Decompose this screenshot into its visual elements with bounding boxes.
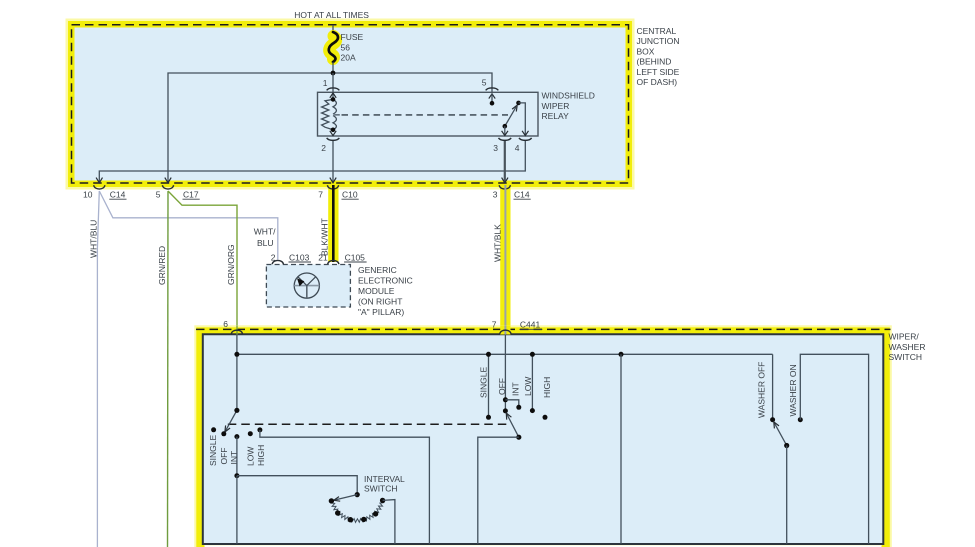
connector C103 pin 2 bbox=[271, 252, 311, 264]
central junction box dashed outline bbox=[72, 25, 629, 183]
svg-text:7: 7 bbox=[318, 190, 323, 200]
svg-text:FUSE: FUSE bbox=[341, 32, 364, 42]
svg-text:MODULE: MODULE bbox=[358, 286, 395, 296]
node: OFF/INT junction bbox=[503, 397, 508, 402]
svg-text:WHT/BLU: WHT/BLU bbox=[88, 220, 98, 258]
svg-text:HIGH: HIGH bbox=[542, 377, 552, 398]
svg-text:SINGLE: SINGLE bbox=[479, 366, 489, 398]
label: CENTRAL JUNCTION BOX (BEHIND LEFT SIDE OF DASH) bbox=[637, 26, 680, 87]
wire: WASHER ON contact to washer motor feed bbox=[800, 354, 868, 544]
svg-text:INT: INT bbox=[511, 382, 521, 396]
svg-text:WASHER ON: WASHER ON bbox=[788, 364, 798, 416]
relay pin 3 bbox=[493, 126, 511, 153]
svg-text:20A: 20A bbox=[341, 53, 356, 63]
svg-text:2: 2 bbox=[271, 252, 276, 262]
wire: relay pin 3 to connector C14 pin 3 bbox=[504, 141, 506, 183]
arrow: wire exit at C14 pin 3 bbox=[502, 178, 508, 183]
contact: HIGH (left bank) bbox=[257, 427, 262, 432]
white strip below switch box bottom edge bbox=[205, 545, 882, 547]
label: WIPER/ WASHER SWITCH bbox=[889, 332, 926, 363]
wire: arm pole to bottom bbox=[478, 437, 519, 544]
svg-text:LEFT SIDE: LEFT SIDE bbox=[637, 67, 680, 77]
wire: fuse output down to node bbox=[332, 62, 334, 73]
svg-text:C14: C14 bbox=[110, 190, 126, 200]
relay pin 1 bbox=[323, 78, 340, 98]
svg-text:WASHER OFF: WASHER OFF bbox=[757, 362, 767, 418]
connector C14 pin 3 bbox=[493, 185, 531, 199]
svg-text:5: 5 bbox=[156, 190, 161, 200]
connector C10 pin 7 bbox=[318, 185, 358, 199]
arrow: wire exit at C17 pin 5 bbox=[165, 178, 171, 183]
svg-text:6: 6 bbox=[223, 319, 228, 329]
wire GRN/ORG crossing C441 band bbox=[236, 326, 238, 335]
svg-text:(BEHIND: (BEHIND bbox=[637, 57, 672, 67]
wire: relay pin 4 to connector C14 pin 10 bbox=[99, 141, 525, 183]
highlight: WHT/BLK wire bbox=[500, 185, 510, 334]
labels: WASHER OFF / WASHER ON bbox=[757, 362, 798, 418]
svg-text:JUNCTION: JUNCTION bbox=[637, 36, 680, 46]
svg-text:21: 21 bbox=[318, 252, 328, 262]
svg-text:WINDSHIELD: WINDSHIELD bbox=[542, 91, 595, 101]
interval switch arm bbox=[334, 492, 360, 501]
wire: battery feed into fuse bbox=[332, 25, 334, 32]
contact: WASHER ON bbox=[798, 417, 803, 422]
wiper/washer switch outline bbox=[203, 334, 884, 544]
contact: INT (left bank) bbox=[234, 434, 239, 439]
svg-text:GENERIC: GENERIC bbox=[358, 265, 397, 275]
svg-text:C17: C17 bbox=[183, 190, 199, 200]
wire: LOW contact stem bbox=[531, 354, 533, 410]
connector C17 pin 5 bbox=[156, 185, 200, 199]
wiper switch arm (mid bank) bbox=[506, 413, 521, 440]
central junction box highlight border bbox=[72, 25, 629, 184]
contact: OFF (left bank) bbox=[221, 431, 226, 436]
wire BLK/WHT: C10 pin 7 to GEM C105 pin 21 bbox=[332, 185, 335, 262]
svg-text:SINGLE: SINGLE bbox=[208, 434, 218, 466]
wire: link to INT contact bbox=[505, 400, 518, 408]
svg-text:WIPER/: WIPER/ bbox=[889, 332, 920, 342]
arrow: wire exit at C14 pin 10 bbox=[96, 178, 102, 183]
wire: interval junction to interval switch pivot bbox=[237, 476, 357, 495]
wire: interval track output to bottom bbox=[383, 500, 395, 544]
wire: INT contact down to interval junction bbox=[236, 437, 238, 476]
connector C441 dashed boundary bbox=[196, 328, 891, 330]
svg-text:RELAY: RELAY bbox=[542, 111, 570, 121]
relay pin 5 contact bbox=[482, 78, 499, 106]
wire WHT/BLK: C14 pin 3 to switch C441 pin 7 bbox=[504, 185, 506, 334]
relay coil winding (right branch) bbox=[333, 99, 340, 129]
svg-text:C14: C14 bbox=[514, 190, 530, 200]
svg-text:C105: C105 bbox=[345, 252, 366, 262]
wire WHT/BLU: C14 pin 10 down left edge bbox=[97, 191, 99, 547]
svg-text:3: 3 bbox=[493, 143, 498, 153]
svg-text:BOX: BOX bbox=[637, 46, 655, 56]
svg-text:4: 4 bbox=[515, 143, 520, 153]
node: bus at pin 6 wire bbox=[234, 352, 239, 357]
wire: pin 6 to wiper switch pole bbox=[236, 335, 238, 411]
contact: wiper INT (C441 bank) bbox=[516, 405, 521, 410]
svg-text:GRN/ORG: GRN/ORG bbox=[226, 244, 236, 285]
svg-text:WIPER: WIPER bbox=[542, 101, 570, 111]
wire: washer arm pole to bottom bbox=[786, 446, 788, 544]
wire GRN/RED: C17 pin 5 down bbox=[167, 191, 170, 547]
svg-text:BLK/WHT: BLK/WHT bbox=[320, 218, 330, 256]
svg-text:HOT AT ALL TIMES: HOT AT ALL TIMES bbox=[294, 10, 369, 20]
label: INTERVAL SWITCH bbox=[364, 474, 405, 494]
highlight: BLK/WHT wire bbox=[328, 185, 338, 262]
label: FUSE 56 20A bbox=[341, 32, 364, 63]
interval switch track contacts bbox=[329, 498, 386, 523]
labels: SINGLE OFF INT LOW HIGH (left bank) bbox=[208, 434, 266, 466]
labels: SINGLE OFF INT LOW HIGH (mid bank) bbox=[479, 366, 552, 398]
wire: bus corner down to WASHER OFF contact bbox=[772, 354, 774, 419]
svg-text:2: 2 bbox=[321, 143, 326, 153]
relay pin 2 bbox=[321, 131, 339, 153]
wire WHT/BLU branch to GEM C103 pin 2 bbox=[99, 191, 277, 260]
svg-text:CENTRAL: CENTRAL bbox=[637, 26, 677, 36]
central junction box interior fill bbox=[75, 28, 626, 181]
svg-text:(ON RIGHT: (ON RIGHT bbox=[358, 296, 402, 306]
wiper/washer switch highlight border bbox=[200, 331, 886, 547]
svg-text:LOW: LOW bbox=[523, 377, 533, 396]
connector C14 pin 10 bbox=[83, 185, 126, 199]
wiper/washer switch interior fill bbox=[204, 335, 883, 544]
node: bus junction to motor feed bbox=[619, 352, 624, 357]
svg-text:SWITCH: SWITCH bbox=[364, 484, 398, 494]
svg-text:5: 5 bbox=[482, 78, 487, 88]
windshield wiper relay box bbox=[318, 92, 539, 136]
svg-text:56: 56 bbox=[341, 42, 351, 52]
svg-text:OFF: OFF bbox=[219, 448, 229, 465]
label: WINDSHIELD WIPER RELAY bbox=[542, 91, 595, 122]
connector C441 pin 6 bbox=[223, 319, 242, 334]
connector C105 pin 21 bbox=[318, 252, 366, 264]
wire: feed bus across switch bbox=[237, 353, 773, 355]
GEM timer symbol bbox=[294, 273, 319, 298]
node: coil bottom bbox=[331, 128, 336, 133]
svg-text:LOW: LOW bbox=[246, 447, 256, 466]
fuse 56 20A element bbox=[329, 32, 338, 62]
svg-text:OF DASH): OF DASH) bbox=[637, 77, 678, 87]
interval switch resistive track bbox=[331, 500, 384, 522]
svg-text:SWITCH: SWITCH bbox=[889, 352, 923, 362]
wire: HIGH contact to bottom bbox=[260, 430, 430, 544]
wire: node down to relay pin 1 bbox=[332, 73, 334, 99]
wire: feed bus to C17 branch and relay pin 5 bbox=[168, 73, 492, 183]
node: fuse output junction bbox=[331, 71, 336, 76]
contact: wiper SINGLE (mid bank) bbox=[486, 415, 491, 420]
svg-text:INTERVAL: INTERVAL bbox=[364, 474, 405, 484]
wire: bus junction down to bottom bbox=[620, 354, 622, 544]
wiper switch arm (left bank) bbox=[225, 408, 240, 432]
connector C441 pin 7 bbox=[492, 320, 543, 334]
contact: SINGLE (left bank) bbox=[211, 427, 216, 432]
label: WHT/ BLU (branch) bbox=[254, 227, 276, 248]
svg-text:3: 3 bbox=[493, 190, 498, 200]
svg-text:ELECTRONIC: ELECTRONIC bbox=[358, 275, 413, 285]
svg-text:C441: C441 bbox=[520, 320, 541, 330]
svg-text:WHT/BLK: WHT/BLK bbox=[492, 224, 502, 262]
relay coil resistor (left branch) bbox=[322, 99, 333, 129]
washer switch arm bbox=[774, 422, 790, 448]
wire: interval junction to bottom bbox=[236, 476, 238, 544]
wire: relay pin 2 to connector C10 pin 7 bbox=[332, 141, 334, 183]
fuse 56 20A highlight bbox=[329, 36, 336, 59]
svg-text:OFF: OFF bbox=[497, 378, 507, 395]
svg-text:BLU: BLU bbox=[257, 238, 274, 248]
svg-text:10: 10 bbox=[83, 190, 93, 200]
node: interval junction bbox=[234, 473, 239, 478]
node: coil top bbox=[331, 97, 336, 102]
arrow: wire exit at C10 pin 7 bbox=[330, 178, 336, 183]
generic electronic module box bbox=[266, 265, 350, 308]
relay pin 4 bbox=[515, 103, 532, 153]
contact: wiper OFF (C441 bank) bbox=[503, 408, 508, 413]
wire GRN/ORG: C17 pin 5 branch to switch pin 6 bbox=[168, 191, 237, 332]
svg-text:7: 7 bbox=[492, 320, 497, 330]
svg-text:C10: C10 bbox=[342, 190, 358, 200]
wire WHT/BLK crossing C441 band bbox=[500, 326, 510, 335]
svg-text:HIGH: HIGH bbox=[256, 445, 266, 466]
mechanical link: wiper switch banks bbox=[228, 423, 510, 425]
svg-text:GRN/RED: GRN/RED bbox=[157, 246, 167, 285]
svg-text:1: 1 bbox=[323, 78, 328, 88]
relay switch arm bbox=[503, 101, 521, 129]
svg-text:WASHER: WASHER bbox=[889, 342, 926, 352]
mechanical link: relay coil to contacts bbox=[342, 114, 509, 116]
contact: wiper LOW (mid bank) bbox=[530, 408, 535, 413]
label: GENERIC ELECTRONIC MODULE (ON RIGHT "A" PILLAR) bbox=[358, 265, 413, 317]
svg-text:"A" PILLAR): "A" PILLAR) bbox=[358, 307, 404, 317]
wire: SINGLE contact stem bbox=[488, 354, 490, 417]
contact: wiper HIGH (mid bank) bbox=[543, 415, 548, 420]
wire: pin 7 down to OFF contact bbox=[504, 335, 506, 411]
svg-text:C103: C103 bbox=[289, 252, 310, 262]
contact: LOW (left bank) bbox=[248, 431, 253, 436]
contact: WASHER OFF bbox=[770, 417, 775, 422]
svg-text:WHT/: WHT/ bbox=[254, 227, 276, 237]
